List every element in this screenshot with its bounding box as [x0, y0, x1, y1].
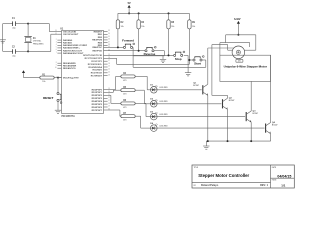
- svg-text:35: 35: [108, 36, 110, 38]
- svg-text:LED-RED: LED-RED: [159, 125, 168, 127]
- svg-text:Roland Pelayo: Roland Pelayo: [201, 184, 219, 187]
- svg-text:13: 13: [55, 30, 57, 32]
- svg-text:RD3/PSP3: RD3/PSP3: [92, 98, 103, 100]
- svg-text:PIC16F877A: PIC16F877A: [62, 115, 76, 118]
- svg-text:5: 5: [56, 47, 57, 49]
- wire Q4 collector to motor coil D: [270, 55, 272, 122]
- capacitor C2: [3, 47, 28, 58]
- wire C2 to OSC2: [28, 34, 57, 51]
- ground: [203, 141, 209, 149]
- resistor R8 10k pull-up: [167, 13, 175, 55]
- LED D1 LED-RED: [150, 85, 168, 94]
- motor M1 nameplate: [236, 59, 243, 62]
- transistor Q3 BC547: [246, 110, 258, 122]
- wire R6 to D3: [135, 103, 150, 116]
- svg-text:RB3/PGM: RB3/PGM: [92, 40, 102, 42]
- LED D3 LED-RED: [150, 111, 168, 120]
- svg-text:RD0/PSP0: RD0/PSP0: [92, 89, 103, 91]
- svg-text:18: 18: [108, 63, 110, 65]
- svg-text:M1: M1: [238, 61, 241, 63]
- svg-text:1: 1: [56, 76, 57, 78]
- svg-text:RC7/RX/DT: RC7/RX/DT: [91, 75, 103, 77]
- svg-text:470: 470: [123, 93, 126, 96]
- wire reset button to ground: [57, 102, 59, 111]
- title block DATE cell: [272, 166, 292, 179]
- wire emitter ground rail: [206, 140, 270, 142]
- wire Q3 emitter to ground rail: [250, 122, 252, 141]
- push button Stop: [174, 51, 185, 61]
- resistor R3 10k pull-up: [137, 13, 145, 50]
- wire Q4 emitter to ground rail: [270, 134, 272, 141]
- IC U1 left pins with numbers: [55, 30, 88, 79]
- wire R5 to D2: [135, 90, 150, 104]
- svg-text:BC547: BC547: [253, 112, 259, 115]
- svg-text:RD2/PSP2: RD2/PSP2: [92, 95, 103, 97]
- svg-text:BC547: BC547: [193, 84, 199, 87]
- svg-text:28: 28: [108, 103, 110, 105]
- LED D4 LED-RED: [150, 122, 168, 132]
- svg-text:RC6/TX/CK: RC6/TX/CK: [91, 73, 103, 75]
- wire R6 row from chip pin: [108, 95, 121, 103]
- transistor Q1 BC547: [193, 82, 208, 95]
- wire Forward to ground bus: [132, 47, 135, 55]
- svg-text:10: 10: [55, 67, 57, 69]
- wire Q1 collector to motor coil A: [208, 48, 234, 84]
- svg-text:RC2/CCP1: RC2/CCP1: [91, 61, 102, 63]
- wire Stop to ground: [184, 55, 188, 67]
- svg-text:9: 9: [56, 64, 57, 66]
- svg-text:RC0/T1OSO/T1CKI: RC0/T1OSO/T1CKI: [83, 55, 102, 57]
- svg-text:MCLR/Vpp/THV: MCLR/Vpp/THV: [63, 77, 79, 79]
- svg-text:RB6/PGC: RB6/PGC: [92, 47, 102, 49]
- svg-text:24: 24: [108, 69, 110, 71]
- wire R7 row from chip pin: [108, 110, 121, 116]
- svg-text:7: 7: [56, 52, 57, 54]
- svg-text:25: 25: [108, 72, 110, 74]
- svg-text:BC547: BC547: [229, 99, 235, 102]
- push button RESET: [43, 92, 62, 103]
- svg-text:RA0/AN0: RA0/AN0: [63, 39, 73, 42]
- wire Q1 emitter to ground rail: [207, 95, 209, 141]
- svg-text:04/04/15: 04/04/15: [277, 174, 291, 178]
- resistor R9 10k pull-up: [188, 13, 196, 60]
- ground: [55, 110, 61, 113]
- svg-text:27: 27: [108, 100, 110, 102]
- svg-text:BC547: BC547: [272, 123, 278, 126]
- svg-text:3: 3: [56, 41, 57, 43]
- svg-text:6: 6: [56, 49, 57, 51]
- svg-text:LED-RED: LED-RED: [159, 87, 168, 89]
- svg-text:4: 4: [56, 44, 57, 46]
- svg-text:37: 37: [108, 41, 110, 43]
- wire D1 to transistor base: [157, 89, 202, 91]
- svg-text:RC1/T1OSI/CCP2: RC1/T1OSI/CCP2: [85, 58, 103, 60]
- wire R1 to MCLR: [54, 77, 61, 79]
- svg-text:RA4/T0CKI/C1OUT: RA4/T0CKI/C1OUT: [63, 49, 83, 52]
- wire C1 to OSC1: [28, 24, 57, 32]
- svg-text:REV: 1: REV: 1: [260, 184, 269, 187]
- svg-text:38: 38: [108, 44, 110, 46]
- wire Q2 emitter to ground rail: [227, 109, 229, 141]
- node 5V rail junction: [128, 12, 130, 14]
- ground: [160, 56, 166, 63]
- svg-text:6-16V: 6-16V: [234, 18, 241, 21]
- resistor R4 1k: [121, 72, 135, 82]
- node Start/R9 junction: [188, 59, 190, 61]
- wire R7 to D4: [135, 116, 150, 128]
- svg-text:RA1/AN1: RA1/AN1: [63, 41, 73, 44]
- svg-text:34: 34: [108, 33, 110, 35]
- svg-text:15: 15: [108, 54, 110, 56]
- node R8 rail junction: [168, 12, 170, 14]
- svg-text:RC3/SCK/SCL: RC3/SCK/SCL: [88, 64, 103, 66]
- IC U1 PIC16F877A body: [60, 28, 103, 118]
- svg-text:LED-RED: LED-RED: [159, 101, 168, 103]
- power 6-16V arrow: [234, 18, 241, 35]
- title block BY row: [194, 184, 269, 187]
- push button Start: [193, 56, 204, 66]
- svg-text:5V: 5V: [128, 2, 131, 5]
- wire D4 to transistor base: [157, 127, 264, 129]
- svg-text:Forward: Forward: [122, 38, 134, 42]
- svg-text:OSC1/CLKIN: OSC1/CLKIN: [63, 31, 76, 33]
- wire RC0 to Stop switch: [108, 54, 174, 56]
- svg-text:2: 2: [56, 39, 57, 41]
- svg-text:Unipolar 6-Wire Stepper Motor: Unipolar 6-Wire Stepper Motor: [224, 65, 268, 69]
- svg-text:Start: Start: [194, 62, 201, 66]
- svg-text:RB7/PGD: RB7/PGD: [92, 50, 102, 52]
- svg-text:RE2/AN7/CS: RE2/AN7/CS: [63, 67, 76, 70]
- title block TITLE text: [194, 167, 250, 178]
- wire RC1 to Start switch: [108, 58, 193, 64]
- svg-text:29: 29: [108, 106, 110, 108]
- resistor R1 10k: [40, 74, 54, 83]
- wire Q3 collector to motor coil C: [250, 81, 252, 111]
- node OSC2 junction: [27, 50, 29, 52]
- wire R5 row from chip pin: [108, 90, 121, 92]
- node OSC1 junction: [27, 23, 29, 25]
- wire 5V rail: [118, 12, 189, 14]
- resistor R5 1k: [121, 87, 135, 96]
- svg-text:1/1: 1/1: [281, 184, 285, 188]
- wire Reverse to ground bus: [154, 51, 164, 56]
- svg-text:RC4/SDI/SDA: RC4/SDI/SDA: [88, 66, 102, 69]
- wire R4 row from chip pin: [108, 76, 121, 89]
- svg-text:14: 14: [55, 33, 57, 35]
- transistor Q4 BC547: [266, 121, 278, 134]
- svg-text:39: 39: [108, 46, 110, 48]
- svg-text:Stepper Motor Controller: Stepper Motor Controller: [198, 173, 249, 178]
- svg-text:17: 17: [108, 60, 110, 62]
- svg-text:RA3/AN3/VREF+: RA3/AN3/VREF+: [63, 47, 80, 50]
- svg-text:470: 470: [123, 119, 126, 122]
- resistor R6 1k: [121, 100, 135, 109]
- svg-text:470: 470: [123, 79, 126, 82]
- svg-text:RD7/PSP7: RD7/PSP7: [92, 110, 103, 112]
- wire ground bus down: [133, 56, 206, 68]
- node R3 rail junction: [138, 12, 140, 14]
- wire D2 to transistor base: [157, 103, 221, 105]
- svg-text:8: 8: [56, 62, 57, 64]
- power VCC arrow (reset pull-up): [22, 70, 40, 77]
- capacitor C1: [3, 18, 28, 30]
- wire reset branch: [57, 78, 59, 93]
- svg-text:33: 33: [108, 30, 110, 32]
- node Stop/R8 junction: [168, 54, 170, 56]
- title block frame: [192, 165, 294, 188]
- svg-text:RA2/AN2/VREF-/CVREF: RA2/AN2/VREF-/CVREF: [63, 44, 88, 47]
- wire motor tap loop: [220, 43, 250, 56]
- node motor supply junction: [237, 34, 239, 36]
- svg-text:FREQ=8MHz: FREQ=8MHz: [33, 43, 44, 45]
- crystal X1: [24, 24, 43, 52]
- resistor R7 1k: [121, 113, 135, 122]
- power 5V arrow: [128, 2, 131, 14]
- LED D2 LED-RED: [150, 99, 168, 108]
- svg-text:470: 470: [123, 106, 126, 109]
- svg-text:LED-RED: LED-RED: [159, 114, 168, 116]
- wire RB7 to Reverse switch: [108, 50, 145, 52]
- svg-text:RB0/INT: RB0/INT: [94, 31, 103, 33]
- IC U1 right pins with numbers: [83, 30, 110, 112]
- svg-text:RD1/PSP1: RD1/PSP1: [92, 92, 103, 94]
- wire Q2 collector to motor coil B: [212, 45, 232, 99]
- push button Forward: [122, 38, 135, 48]
- svg-text:RD5/PSP5: RD5/PSP5: [92, 104, 103, 106]
- box Unipolar 6-Wire Stepper Motor: [220, 55, 271, 81]
- ground: [0, 40, 6, 43]
- svg-text:RA5/AN4/SS/C2OUT: RA5/AN4/SS/C2OUT: [63, 52, 84, 55]
- svg-text:RD4/PSP4: RD4/PSP4: [92, 100, 103, 103]
- node Reverse/R3 junction: [138, 50, 140, 52]
- wire RB6 to Forward switch: [108, 46, 124, 48]
- push button Reverse: [144, 46, 156, 56]
- svg-text:RESET: RESET: [43, 96, 53, 100]
- svg-text:22: 22: [108, 97, 110, 99]
- wire motor center-tap rail: [226, 35, 256, 50]
- svg-text:36: 36: [108, 39, 110, 41]
- wire R4 to D1: [135, 76, 150, 89]
- ground: [185, 67, 191, 76]
- wire D3 to transistor base: [157, 116, 245, 118]
- node Forward/R2 junction: [117, 46, 119, 48]
- svg-text:26: 26: [108, 74, 110, 76]
- wire left rail (C1/C2 ground rail): [2, 24, 4, 52]
- transistor Q2 BC547: [223, 98, 235, 110]
- resistor R2 10k pull-up: [116, 13, 124, 47]
- wire Start to ground: [202, 60, 206, 67]
- motor M1 rotor: [232, 46, 245, 59]
- svg-text:Stop: Stop: [175, 57, 182, 61]
- svg-text:CRYSTAL: CRYSTAL: [33, 40, 42, 43]
- node Q1 emitter junction: [207, 140, 209, 142]
- node Q2 emitter junction: [227, 140, 229, 142]
- node MCLR junction: [57, 77, 59, 79]
- svg-text:OSC2/CLKOUT: OSC2/CLKOUT: [63, 34, 79, 36]
- svg-text:RD6/PSP6: RD6/PSP6: [92, 107, 103, 109]
- node Q3 emitter junction: [250, 140, 252, 142]
- wire ground bus 1: [133, 55, 164, 57]
- svg-text:RC5/SDO: RC5/SDO: [92, 70, 102, 72]
- svg-text:23: 23: [108, 66, 110, 68]
- title block PAGE cell: [272, 179, 286, 188]
